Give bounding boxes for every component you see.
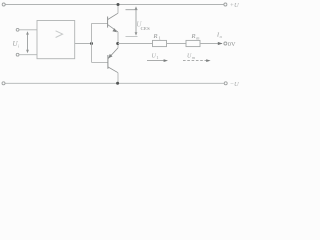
svg-text:R: R (153, 33, 158, 40)
arrowhead output current into terminal (218, 42, 223, 45)
arrow UCES (rail to output, double headed) (135, 6, 138, 35)
wire base riser vertical (91, 23, 93, 62)
wire output line mid segment (167, 43, 187, 45)
svg-text:m: m (196, 35, 199, 40)
resistor R1 (153, 40, 167, 46)
svg-text:i: i (18, 44, 20, 49)
node base drive junction (90, 42, 93, 45)
wire input lower (19, 54, 37, 56)
terminal 0V (224, 42, 227, 45)
terminal input lower (16, 53, 19, 56)
wire input upper (19, 29, 37, 31)
op-amp A1 (amplifier block) (37, 21, 75, 59)
terminal top-right (224, 3, 227, 6)
arrow Ui input voltage (double headed) (26, 31, 29, 53)
node output junction (116, 42, 119, 45)
wire UCES reference bar (126, 36, 138, 38)
terminal bottom-right (224, 82, 227, 85)
transistor Q1 (upper NPN) (108, 13, 118, 32)
wire UCES top reference bar (126, 9, 138, 11)
node collector-rail junction bottom (116, 82, 119, 85)
wire output line left segment (118, 43, 153, 45)
arrow Um direction (dashed) (183, 59, 211, 62)
arrowhead Q1 emitter (112, 28, 117, 32)
svg-text:CES: CES (141, 26, 151, 31)
svg-text:+U: +U (230, 2, 240, 9)
transistor Q2 (lower PNP) (108, 48, 118, 73)
wire bottom supply rail (5, 82, 224, 84)
arrowhead Q2 emitter (points to base) (108, 54, 112, 58)
arrow U1 direction (147, 59, 168, 62)
svg-text:1: 1 (159, 35, 161, 40)
terminal bottom-left (2, 82, 5, 85)
svg-text:0V: 0V (228, 41, 236, 48)
terminal input upper (16, 28, 19, 31)
wire base branch upper (92, 22, 108, 24)
amplifier gain symbol > (56, 31, 63, 38)
svg-text:R: R (191, 33, 196, 40)
wire top supply rail (5, 4, 223, 6)
wire base branch lower (92, 61, 109, 63)
svg-text:o: o (220, 34, 223, 39)
wire emitter node vertical (117, 32, 119, 48)
resistor Rm (186, 40, 200, 46)
svg-text:−U: −U (230, 81, 240, 88)
node collector-rail junction (117, 3, 120, 6)
svg-text:m: m (192, 55, 195, 60)
wire op-amp output to base node (75, 43, 92, 45)
wire Q2 collector to bottom rail (117, 73, 119, 84)
wire output line right segment (200, 43, 222, 45)
svg-text:1: 1 (156, 55, 158, 60)
terminal top-left (2, 3, 5, 6)
wire Q1 collector to top rail (117, 5, 119, 14)
